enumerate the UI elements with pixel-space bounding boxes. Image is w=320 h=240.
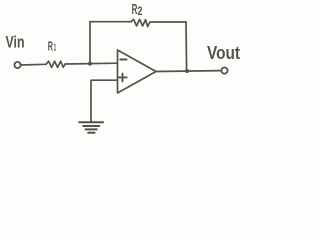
- svg-text:2: 2: [137, 6, 142, 18]
- wire Vin to R1: [21, 63, 46, 66]
- svg-text:Vout: Vout: [207, 42, 240, 63]
- wire R1 to op-amp inverting input: [65, 62, 117, 65]
- node junction at inverting input: [88, 62, 92, 66]
- op-amp U1 triangle: [118, 50, 157, 93]
- ground: [79, 122, 103, 133]
- resistor R2: [131, 19, 150, 26]
- wire non-inverting input to ground stem: [91, 80, 118, 122]
- wire feedback top left segment: [90, 21, 131, 23]
- wire junction up to feedback: [89, 22, 91, 64]
- svg-text:1: 1: [54, 43, 57, 54]
- resistor R1: [46, 61, 65, 67]
- wire feedback down to output: [185, 22, 188, 71]
- wire op-amp output to Vout: [156, 70, 221, 73]
- svg-text:Vin: Vin: [6, 34, 25, 52]
- svg-text:R: R: [48, 39, 53, 54]
- node Vin terminal: [14, 62, 20, 68]
- wire feedback top right segment: [150, 21, 186, 23]
- pin minus sign (inverting input): [120, 59, 126, 61]
- node Vout terminal: [221, 68, 227, 74]
- pin plus sign (non-inverting input): [119, 74, 127, 82]
- node junction at output: [185, 69, 189, 73]
